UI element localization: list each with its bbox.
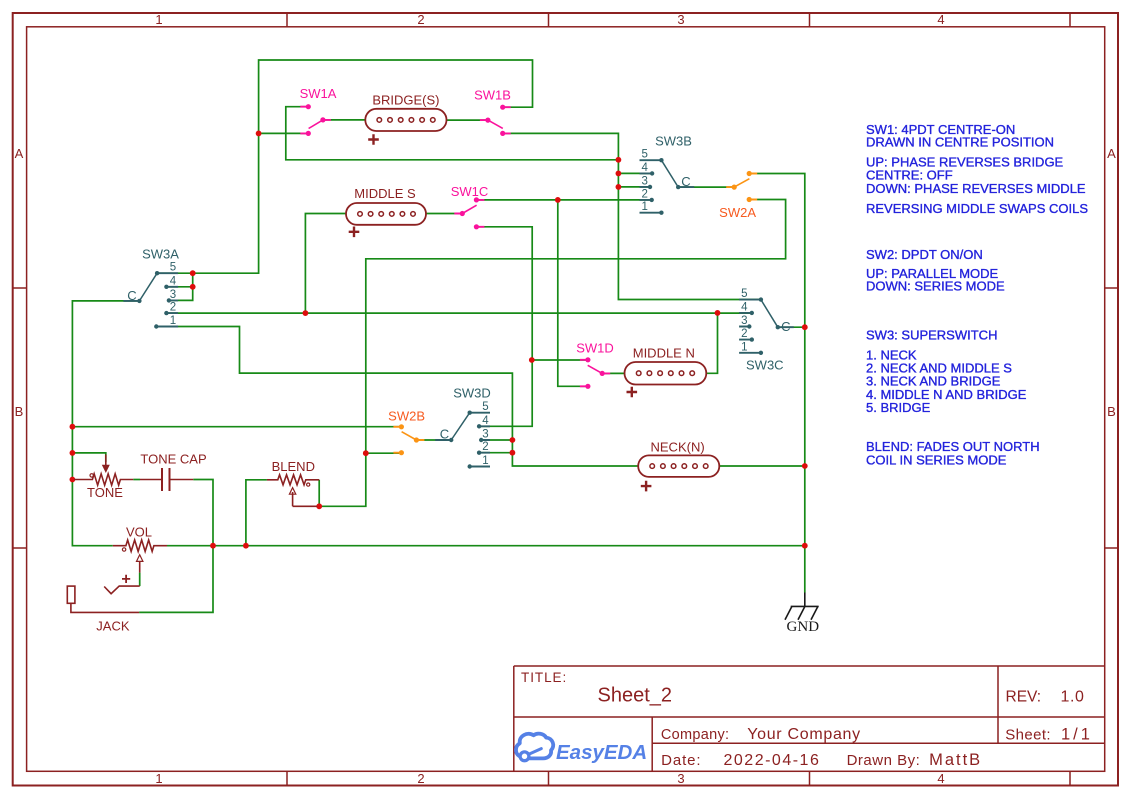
svg-text:3: 3 — [677, 12, 684, 27]
switch SW1D — [576, 341, 614, 389]
wire SW2B lower pin — [366, 452, 402, 454]
junction — [510, 437, 516, 443]
wire VOL wiper to jack tip — [139, 573, 141, 587]
svg-text:1: 1 — [170, 315, 176, 327]
svg-text:SW1A: SW1A — [300, 86, 337, 101]
svg-text:SW3B: SW3B — [655, 134, 692, 149]
junction — [316, 503, 322, 509]
svg-text:DRAWN IN CENTRE POSITION: DRAWN IN CENTRE POSITION — [866, 135, 1054, 150]
svg-text:3: 3 — [482, 429, 488, 441]
wire SW3A pin2 to SW3C pin4 — [166, 312, 751, 314]
junction — [616, 157, 622, 163]
switch SW3D — [435, 386, 491, 469]
junction — [529, 357, 535, 363]
bottom ticks — [287, 771, 1070, 785]
junction — [243, 543, 249, 549]
junction — [256, 131, 262, 137]
switch SW3A — [123, 247, 179, 329]
wire SW3A common down left rail — [72, 301, 139, 546]
switch SW1C — [451, 184, 489, 229]
wire NECK right — [719, 465, 805, 467]
wire MIDDLE S right to SW1C common — [426, 213, 462, 215]
svg-text:4: 4 — [741, 302, 748, 314]
svg-text:Drawn By:: Drawn By: — [847, 752, 921, 769]
svg-text:1: 1 — [155, 771, 162, 786]
junction — [616, 184, 622, 190]
svg-text:SW3: SUPERSWITCH: SW3: SUPERSWITCH — [866, 327, 997, 342]
wire SW1C top to SW3B pin2 — [476, 199, 651, 201]
svg-text:BRIDGE(S): BRIDGE(S) — [372, 93, 439, 108]
wire SW3D pin2 — [479, 452, 512, 454]
switch SW2B — [388, 409, 425, 456]
junction — [190, 284, 196, 290]
svg-text:C: C — [781, 319, 790, 334]
svg-text:SW3D: SW3D — [453, 386, 491, 401]
wire SW3B pin3 — [618, 186, 650, 188]
right ticks — [1105, 288, 1118, 548]
svg-text:A: A — [1107, 146, 1116, 161]
svg-text:Date:: Date: — [661, 752, 701, 769]
svg-text:EasyEDA: EasyEDA — [556, 741, 647, 764]
wire BRIDGE to SW1B common — [447, 119, 488, 121]
svg-text:BLEND: BLEND — [272, 459, 315, 474]
svg-text:1/1: 1/1 — [1061, 725, 1093, 743]
pickup NECK(N) — [638, 440, 719, 492]
wire MIDDLE N left — [602, 372, 624, 374]
junction — [190, 270, 196, 276]
svg-text:5: 5 — [482, 401, 488, 413]
svg-text:1: 1 — [482, 455, 488, 467]
junction — [70, 450, 76, 456]
svg-text:VOL: VOL — [126, 525, 152, 540]
svg-text:SW1B: SW1B — [474, 88, 511, 103]
svg-text:1: 1 — [641, 201, 647, 213]
ground GND — [785, 593, 819, 635]
TITLE BLOCK — [514, 666, 1105, 771]
wire SW1D top — [532, 359, 588, 361]
switch SW1A — [300, 86, 337, 136]
svg-text:B: B — [1107, 404, 1116, 419]
SW2 SWITCHES (orange) — [388, 171, 757, 455]
junction — [802, 543, 808, 549]
pickup BRIDGE(S) — [365, 93, 446, 145]
svg-text:2: 2 — [482, 441, 488, 453]
top ticks — [287, 13, 1070, 27]
svg-text:5: 5 — [641, 149, 647, 161]
svg-text:1: 1 — [155, 12, 162, 27]
svg-text:CENTRE: OFF: CENTRE: OFF — [866, 167, 953, 182]
junction — [715, 310, 721, 316]
SW3 SWITCHES (teal) — [123, 134, 793, 469]
wire SW3D pin3 — [481, 439, 512, 441]
wire SW2A top to ground bus — [749, 174, 805, 593]
svg-text:MIDDLE N: MIDDLE N — [633, 346, 695, 361]
svg-text:1: 1 — [741, 341, 747, 353]
wire bottom rail VOL to GND bus — [167, 545, 805, 547]
SW1 SWITCHES (pink) — [300, 86, 614, 389]
svg-text:Sheet_2: Sheet_2 — [598, 685, 673, 707]
junction — [802, 324, 808, 330]
junction — [510, 450, 516, 456]
svg-text:2: 2 — [170, 302, 176, 314]
svg-text:3: 3 — [677, 771, 684, 786]
wire SW1A top pin bypass to SW3B column — [286, 107, 619, 160]
svg-text:TONE CAP: TONE CAP — [140, 452, 206, 467]
svg-text:2: 2 — [641, 188, 647, 200]
wire SW1A lower pin — [259, 132, 309, 134]
wire SW3C common — [778, 326, 805, 328]
wire SW1A common to BRIDGE — [323, 119, 365, 121]
svg-text:4: 4 — [482, 415, 489, 427]
potentiometer BLEND — [267, 459, 319, 506]
wire SW3A pin4-pin3 link — [166, 273, 192, 300]
svg-text:REVERSING MIDDLE SWAPS COILS: REVERSING MIDDLE SWAPS COILS — [866, 201, 1088, 216]
junction — [303, 310, 309, 316]
svg-text:Your Company: Your Company — [747, 726, 861, 743]
svg-text:2022-04-16: 2022-04-16 — [724, 752, 821, 769]
wire SW2B top pin — [72, 426, 401, 428]
svg-text:COIL IN SERIES MODE: COIL IN SERIES MODE — [866, 452, 1007, 467]
wire SW3B common to SW2A — [678, 186, 734, 188]
BLUE NOTES — [866, 122, 1088, 467]
svg-text:SW3A: SW3A — [142, 247, 179, 262]
svg-text:4: 4 — [937, 12, 944, 27]
svg-text:MIDDLE S: MIDDLE S — [354, 186, 416, 201]
svg-text:JACK: JACK — [96, 618, 130, 633]
jack JACK — [67, 575, 139, 634]
wire BLEND left leg — [246, 480, 267, 546]
wire SW3A pin1 to NECK left — [156, 327, 638, 467]
capacitor TONE CAP — [140, 452, 207, 492]
svg-text:TITLE:: TITLE: — [521, 670, 567, 685]
svg-text:2: 2 — [417, 771, 424, 786]
svg-text:A: A — [15, 146, 24, 161]
switch SW2A — [719, 171, 757, 220]
pickup MIDDLE S — [346, 186, 426, 237]
wire SW2B common to SW3D common — [416, 439, 451, 441]
wire SW1C lower to SW3D pin4 — [476, 227, 532, 426]
svg-text:C: C — [440, 427, 449, 442]
svg-text:4: 4 — [937, 771, 944, 786]
switch SW3B — [640, 134, 695, 215]
svg-text:C: C — [127, 288, 136, 303]
POTS / CAP / JACK / GND — [67, 452, 319, 634]
svg-text:SW2A: SW2A — [719, 205, 756, 220]
wire cap right down to jack rail — [139, 480, 213, 613]
svg-text:DOWN: SERIES MODE: DOWN: SERIES MODE — [866, 278, 1005, 293]
svg-text:3: 3 — [170, 289, 176, 301]
svg-text:SW2: DPDT ON/ON: SW2: DPDT ON/ON — [866, 247, 983, 262]
wire MIDDLE N right up — [706, 313, 717, 373]
svg-text:3: 3 — [641, 175, 647, 187]
svg-text:GND: GND — [787, 619, 820, 635]
wire MIDDLE S left lead — [305, 214, 346, 314]
wire SW3B pin4 — [618, 172, 652, 174]
switch SW3C — [739, 288, 794, 372]
svg-text:REV:: REV: — [1006, 689, 1042, 706]
wire top loop SW1B top to SW1A lower branch — [157, 60, 532, 273]
svg-text:B: B — [15, 404, 24, 419]
svg-text:Company:: Company: — [661, 727, 730, 743]
wire vertical to SW1D lower — [558, 200, 588, 386]
svg-text:5: 5 — [741, 288, 747, 300]
svg-text:SW2B: SW2B — [388, 409, 425, 424]
switch SW1B — [474, 88, 511, 136]
svg-text:SW1D: SW1D — [576, 341, 614, 356]
svg-text:5: 5 — [170, 262, 176, 274]
svg-text:SW3C: SW3C — [746, 358, 784, 373]
svg-text:2: 2 — [417, 12, 424, 27]
junction — [802, 463, 808, 469]
svg-text:MattB: MattB — [929, 751, 982, 769]
svg-text:5. BRIDGE: 5. BRIDGE — [866, 400, 931, 415]
svg-text:TONE: TONE — [87, 485, 123, 500]
svg-text:2: 2 — [741, 328, 747, 340]
junction — [70, 477, 76, 483]
svg-text:3: 3 — [741, 315, 747, 327]
junction — [70, 424, 76, 430]
wire SW2A lower to BLEND right — [319, 200, 785, 507]
svg-text:NECK(N): NECK(N) — [651, 440, 705, 455]
svg-text:SW1C: SW1C — [451, 184, 489, 199]
svg-text:C: C — [681, 174, 690, 189]
svg-text:DOWN: PHASE REVERSES MIDDLE: DOWN: PHASE REVERSES MIDDLE — [866, 181, 1086, 196]
wire SW1B lower to SW3C pin5 — [503, 133, 761, 299]
svg-text:4: 4 — [641, 162, 648, 174]
junction — [363, 450, 369, 456]
left ticks — [13, 288, 27, 548]
junction — [616, 171, 622, 177]
pickup MIDDLE N — [625, 346, 707, 398]
junction — [210, 543, 216, 549]
EasyEDA logo — [516, 734, 647, 764]
wire TONE wiper — [72, 453, 105, 462]
junction — [555, 197, 561, 203]
wire BLEND right drop — [318, 480, 320, 507]
potentiometer VOL — [113, 525, 167, 573]
potentiometer TONE — [74, 455, 133, 501]
svg-text:Sheet:: Sheet: — [1005, 726, 1051, 743]
svg-text:4: 4 — [170, 275, 177, 287]
wire TONE right to cap — [133, 479, 140, 481]
svg-text:1.0: 1.0 — [1061, 689, 1085, 706]
PICKUPS — [346, 93, 719, 492]
